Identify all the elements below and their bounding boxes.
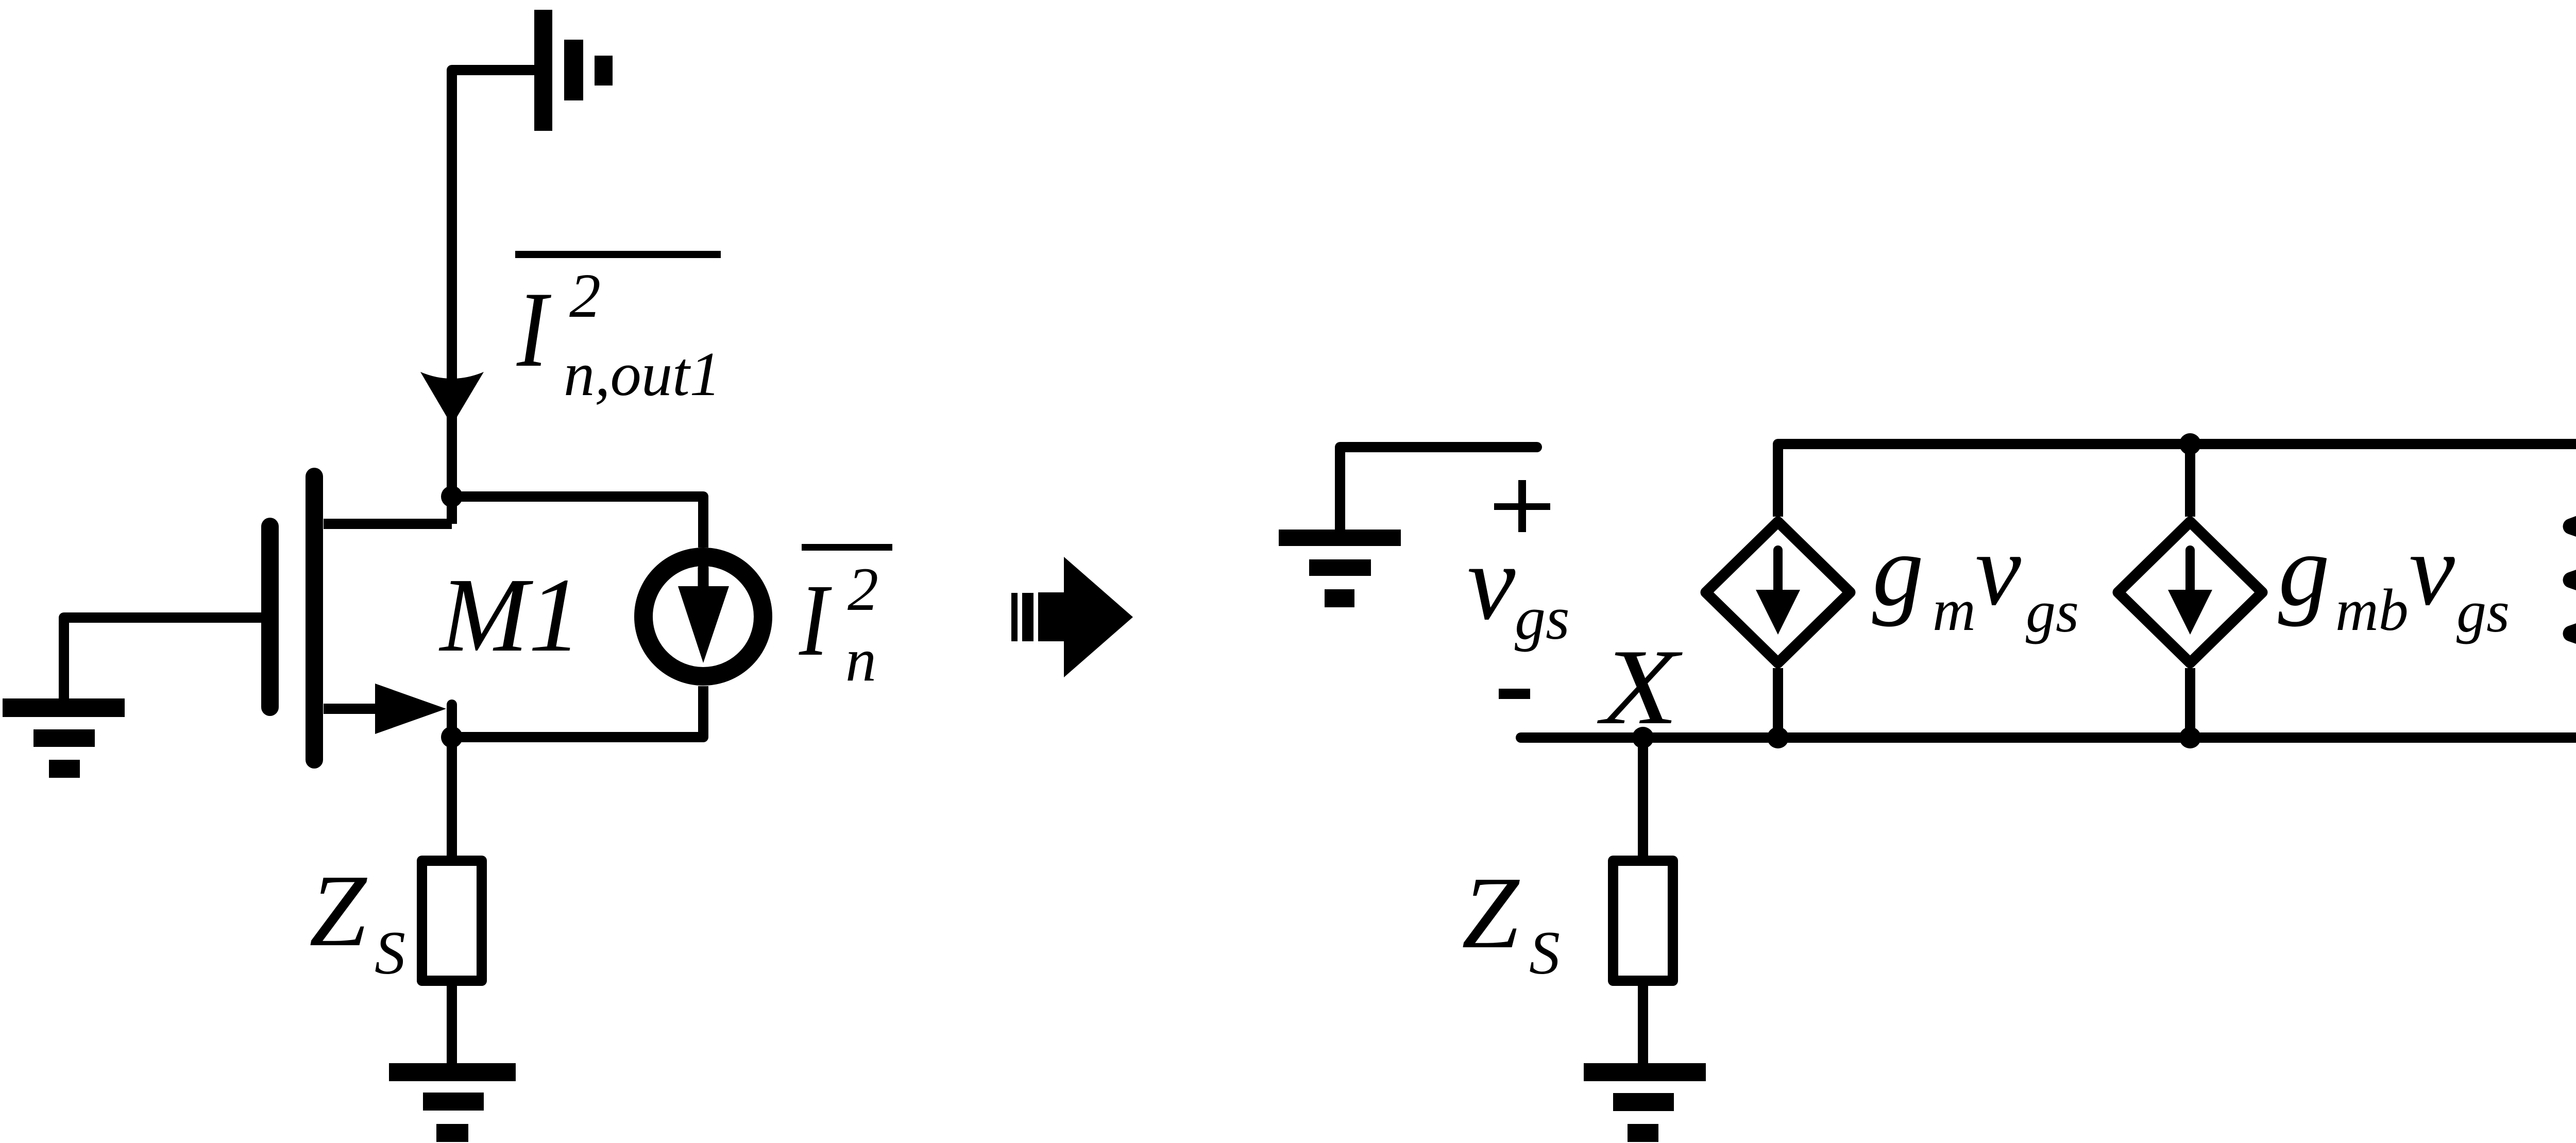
svg-text:S: S <box>1529 918 1560 987</box>
transistor M1 source arrow <box>375 684 446 734</box>
svg-text:M1: M1 <box>438 556 582 674</box>
impedance ZS (left) wire from source node <box>447 737 457 856</box>
implication arrow (center) <box>1011 557 1133 677</box>
bottom rail <box>1521 661 2576 738</box>
svg-text:gs: gs <box>2026 579 2079 645</box>
svg-text:I: I <box>799 564 832 677</box>
junction dot rail bottom at gm <box>1767 727 1789 748</box>
svg-text:g: g <box>1872 514 1924 627</box>
label + <box>1494 480 1550 532</box>
svg-text:Z: Z <box>1462 856 1520 970</box>
arrowhead I2n,out1 (concave, pointing down) <box>420 372 484 425</box>
impedance ZS (left) wire to ground <box>447 984 457 1063</box>
label ZS (left) <box>309 854 405 987</box>
junction dot drain node <box>441 486 463 507</box>
dependent source gm*vgs diamond <box>1706 444 2190 738</box>
svg-text:S: S <box>375 918 405 987</box>
svg-text:n: n <box>845 625 876 694</box>
transistor M1 gate lead <box>64 618 261 698</box>
noise current source I2n circle <box>643 557 763 676</box>
svg-text:m: m <box>1933 577 1976 643</box>
noise source inner arrow <box>678 568 729 663</box>
wire source node to noise source bottom <box>452 686 703 737</box>
junction dot rail top at gmb <box>2179 433 2201 455</box>
ground (gate reference, right circuit) <box>1340 447 1537 530</box>
ground (gate of M1) <box>3 698 125 778</box>
overline of I2n label <box>802 544 892 551</box>
svg-text:2: 2 <box>569 261 601 331</box>
junction dot rail bottom at gmb <box>2179 727 2201 748</box>
ground (top-left, rotated 90deg) <box>534 10 613 131</box>
dependent source gmb*vgs diamond <box>2118 522 2262 738</box>
label vgs <box>1467 523 1570 652</box>
wire drain node to noise source top <box>452 497 703 548</box>
impedance ZS (right) box <box>1613 861 1673 981</box>
ground (below left ZS) <box>389 1063 516 1142</box>
wire from top ground down to drain <box>452 70 534 524</box>
svg-text:2: 2 <box>848 555 878 623</box>
resistor ro <box>2571 444 2576 738</box>
svg-text:Z: Z <box>309 854 367 968</box>
svg-text:v: v <box>1467 523 1516 642</box>
label gm vgs <box>1872 513 2079 645</box>
label ZS (right) <box>1462 856 1560 987</box>
svg-text:v: v <box>1975 513 2021 627</box>
svg-text:gs: gs <box>2456 579 2510 645</box>
transistor M1 drain lead <box>324 519 452 529</box>
label gmb vgs <box>2278 513 2510 645</box>
impedance ZS (left) box <box>422 861 482 981</box>
junction dot source node <box>441 726 463 748</box>
wire source node vertical stub <box>447 705 457 737</box>
junction dot node X <box>1632 727 1654 748</box>
svg-text:mb: mb <box>2335 577 2409 643</box>
svg-text:I: I <box>516 270 552 389</box>
label I2n <box>799 555 878 694</box>
transistor M1 channel bar <box>306 476 323 760</box>
transistor M1 gate bar <box>261 526 279 707</box>
svg-text:g: g <box>2278 514 2330 627</box>
label I2n,out1 <box>516 261 721 409</box>
ground (below right ZS) <box>1584 1063 1706 1142</box>
svg-text:n,out1: n,out1 <box>564 339 721 409</box>
overline of I2n,out1 label <box>515 251 721 258</box>
svg-text:v: v <box>2409 513 2455 627</box>
svg-text:gs: gs <box>1515 584 1570 652</box>
top rail <box>1778 444 2576 517</box>
label minus <box>1499 689 1530 699</box>
impedance ZS (right) wire from node X <box>1638 738 1648 856</box>
impedance ZS (right) wire to ground <box>1638 984 1648 1063</box>
transistor M1 source lead <box>324 704 381 714</box>
